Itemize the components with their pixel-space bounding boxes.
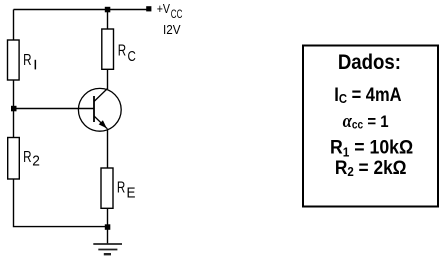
svg-text:2: 2 (32, 152, 40, 168)
svg-text:Dados:: Dados: (338, 51, 401, 75)
svg-text:E: E (127, 185, 136, 202)
wire: RE bottom to ground (107, 208, 109, 244)
svg-text:C: C (128, 48, 137, 65)
label R2 (23, 148, 40, 168)
wire: left vertical from rail to R1 (13, 10, 15, 41)
svg-text:αcc = 1: αcc = 1 (343, 110, 389, 132)
label +VCC (157, 2, 183, 22)
svg-text:R: R (118, 42, 126, 59)
resistor RC (102, 29, 114, 69)
ground (93, 244, 122, 254)
wire: collector wire from rail to RC (107, 10, 109, 30)
resistor R1 (8, 40, 20, 80)
svg-text:+V: +V (157, 2, 171, 16)
resistor RE (101, 168, 113, 208)
label R1 (23, 51, 36, 69)
transistor Q1 (78, 88, 121, 131)
node: collector junction dot on VCC rail (105, 7, 111, 13)
svg-text:R: R (117, 179, 125, 196)
wire: top VCC rail (14, 9, 148, 11)
wire: RC to transistor collector (107, 69, 109, 89)
wire: base wire to transistor (14, 108, 95, 110)
node: base junction dot (11, 106, 17, 112)
wire: R2 bottom to bottom rail (14, 179, 108, 227)
wire: emitter to RE (107, 129, 109, 169)
data box frame (303, 46, 438, 207)
label RE (117, 179, 136, 202)
wire: R1 bottom to R2 top (13, 80, 15, 138)
label RC (118, 42, 136, 65)
svg-text:R2 = 2kΩ: R2 = 2kΩ (335, 156, 407, 179)
svg-text:R: R (23, 51, 31, 68)
svg-text:R: R (23, 148, 31, 165)
resistor R2 (8, 138, 20, 180)
terminal: +VCC endpoint square (146, 6, 151, 11)
node: emitter-ground junction dot (105, 224, 111, 230)
svg-text:CC: CC (171, 9, 183, 22)
svg-text:I2V: I2V (163, 22, 181, 37)
